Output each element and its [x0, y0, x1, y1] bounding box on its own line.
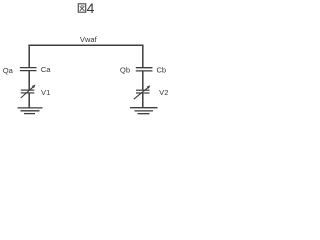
ground right	[130, 108, 158, 114]
svg-text:Qa: Qa	[3, 66, 14, 75]
svg-text:Ca: Ca	[41, 65, 51, 74]
ground left	[18, 108, 43, 114]
variable capacitor V2	[134, 85, 151, 99]
variable capacitor V1	[21, 85, 36, 99]
wire right vertical lower	[142, 93, 144, 107]
capacitor Ca	[20, 68, 37, 71]
svg-text:4: 4	[87, 0, 95, 16]
wire left vertical lower	[28, 93, 30, 108]
title 図4	[78, 0, 94, 16]
svg-text:Cb: Cb	[156, 65, 166, 74]
svg-text:Qb: Qb	[120, 65, 130, 74]
wire right vertical middle	[142, 71, 144, 90]
wire right vertical upper	[142, 45, 144, 68]
svg-text:V2: V2	[159, 88, 168, 97]
wire top horizontal Vwaf net	[28, 44, 143, 46]
wire left vertical middle	[28, 71, 30, 90]
svg-text:Vwaf: Vwaf	[80, 35, 98, 44]
svg-text:V1: V1	[41, 88, 50, 97]
capacitor Cb	[136, 68, 153, 71]
wire left vertical upper	[28, 45, 30, 68]
